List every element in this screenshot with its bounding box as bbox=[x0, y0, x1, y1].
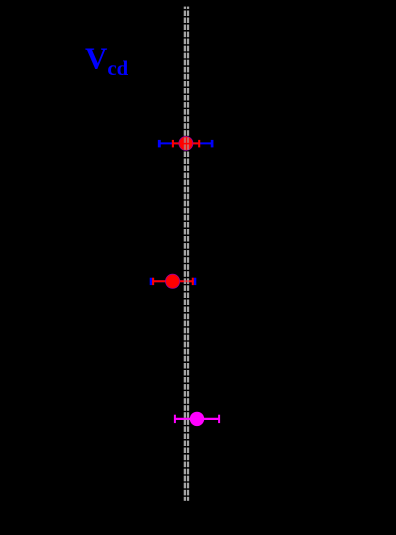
point 1 outer (blue) error bar bbox=[159, 140, 212, 148]
point 1 inner (red) error bar bbox=[173, 140, 199, 148]
point 2 marker (red circle) bbox=[166, 274, 180, 288]
point 2 outer (blue) error bar bbox=[151, 278, 195, 285]
average line under-layer (same geometry, hidden by markers) bbox=[185, 7, 188, 501]
point 1 marker (red circle) bbox=[179, 136, 193, 150]
point 3 (magenta) error bar bbox=[175, 415, 219, 423]
vertical double dashed average line (translucent top layer) bbox=[185, 7, 188, 501]
point 2 inner (red) error bar bbox=[153, 278, 193, 285]
point 3 marker (magenta circle) bbox=[190, 412, 204, 426]
